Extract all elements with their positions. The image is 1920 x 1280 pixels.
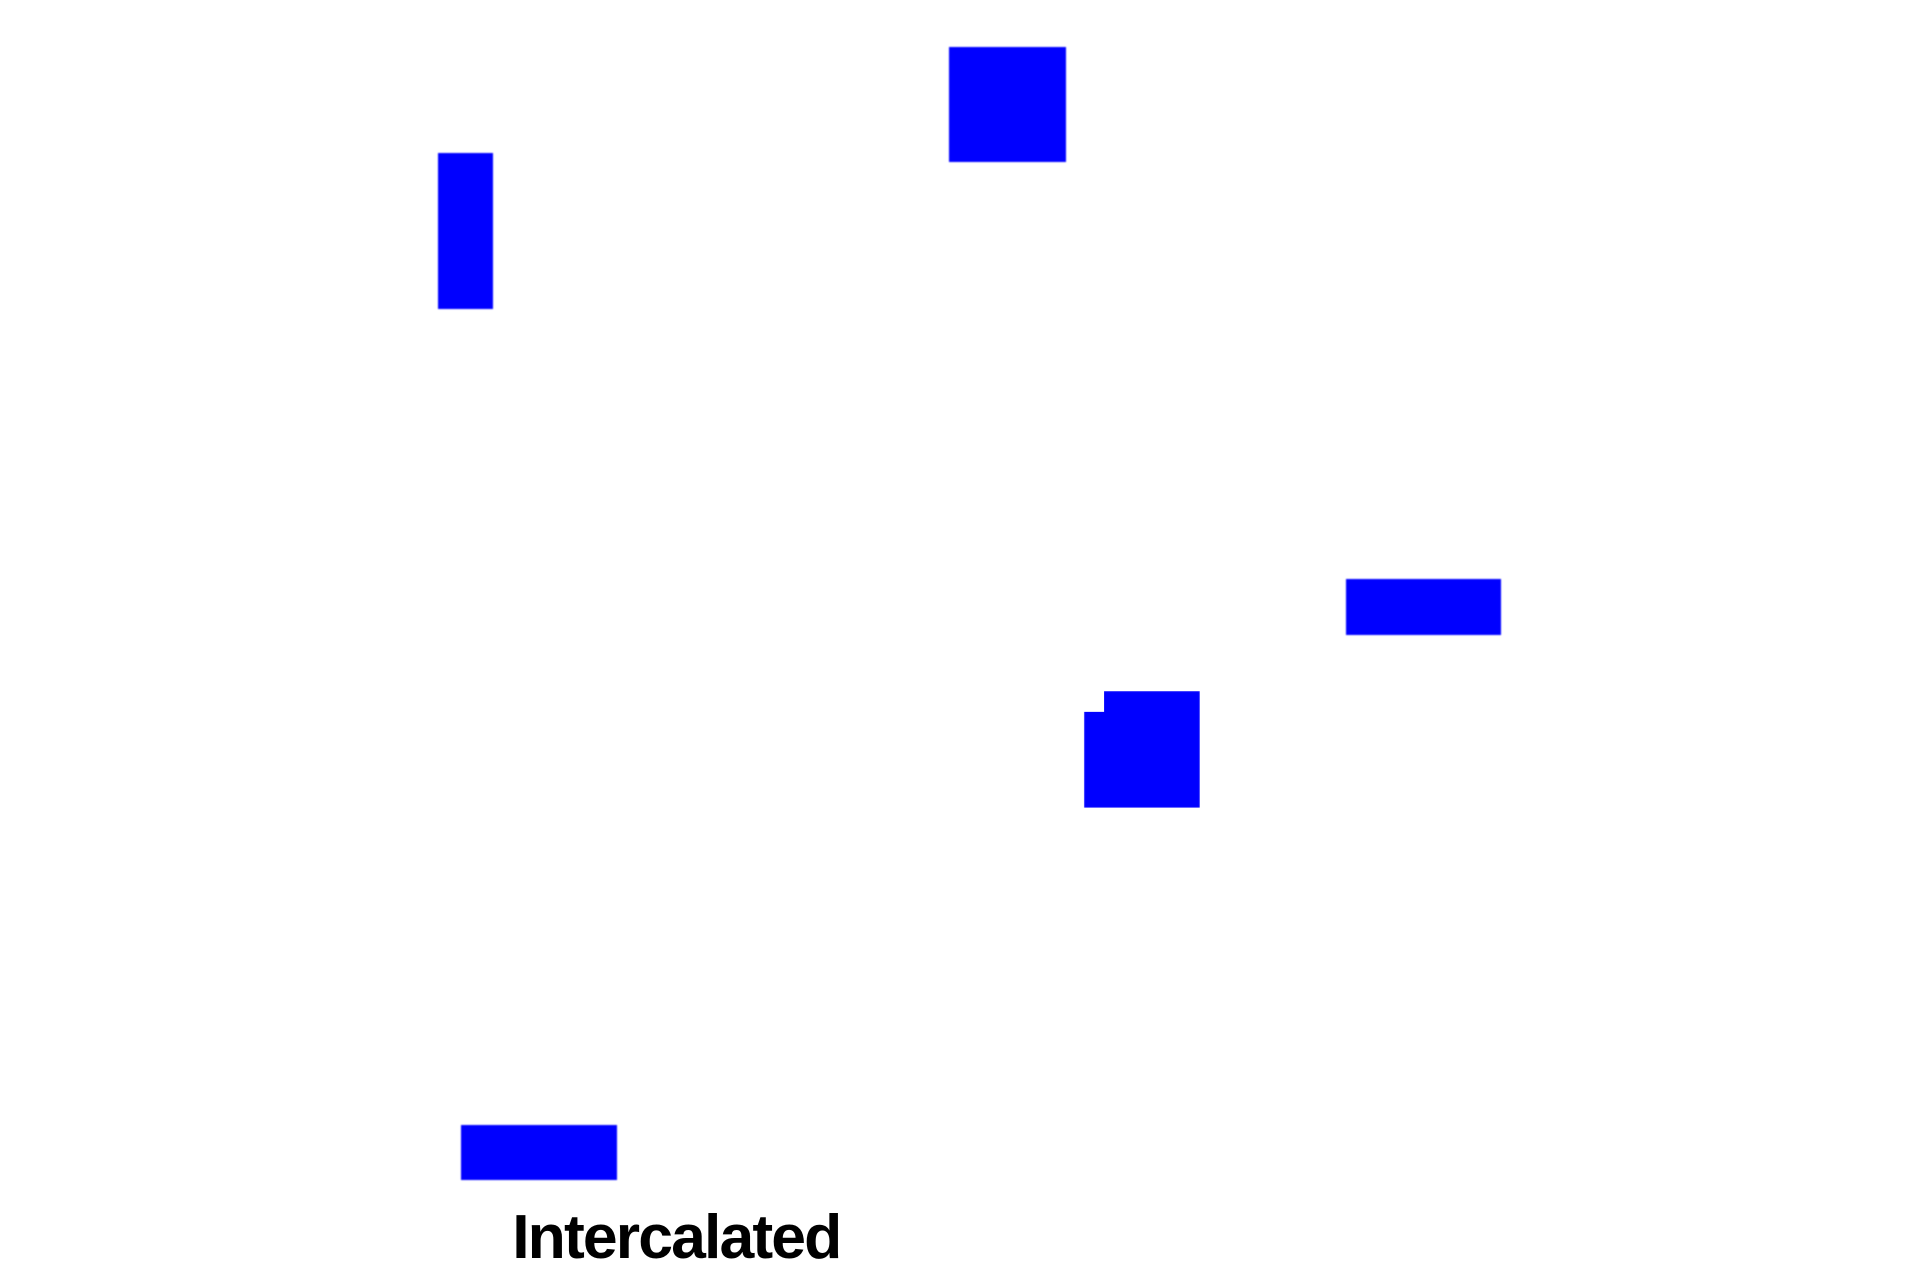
highlight box 5 (bottom left) — [461, 1125, 617, 1180]
highlight box 4 (L-shaped union of two overlapping boxes) — [1084, 691, 1200, 808]
label Intercalated — [512, 1206, 840, 1269]
highlight box 3 (right horizontal) — [1346, 579, 1501, 635]
highlight box 1 (top center) — [949, 47, 1066, 162]
highlight box 2 (left vertical) — [438, 153, 493, 309]
